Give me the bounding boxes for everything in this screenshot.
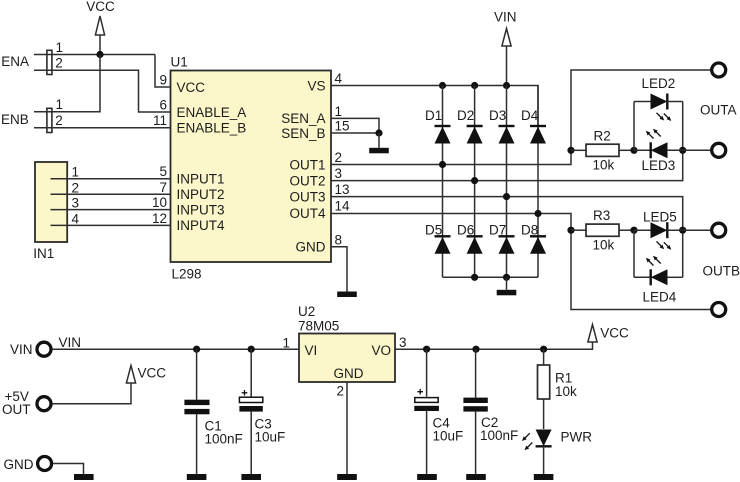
svg-text:OUT3: OUT3: [289, 189, 325, 204]
junction SEN node: [375, 129, 382, 136]
svg-text:GND: GND: [4, 457, 34, 472]
wire LED pair B right vertical: [682, 230, 684, 277]
svg-text:9: 9: [159, 73, 167, 88]
LED PWR: [522, 430, 592, 475]
svg-text:ENABLE_A: ENABLE_A: [177, 105, 247, 120]
svg-text:3: 3: [399, 335, 407, 350]
ground PWR: [534, 474, 554, 480]
svg-text:11: 11: [153, 113, 167, 128]
connector IN1: [33, 162, 79, 261]
diode D5: [425, 165, 451, 278]
ground U2: [337, 474, 357, 480]
wire U2 VO to VCC flag right: [395, 342, 593, 349]
svg-text:OUTB: OUTB: [703, 264, 740, 279]
svg-text:OUTA: OUTA: [700, 103, 737, 118]
svg-text:D3: D3: [489, 108, 506, 123]
wire bridge bottom rail: [443, 276, 539, 278]
IC U2 78M05: [298, 304, 395, 382]
ground C1: [187, 474, 207, 480]
junction VCC at ENA pin1: [96, 51, 103, 58]
wire OUT4 from U1 pin14 down to OUTB bottom: [331, 214, 711, 310]
junction R2 tap: [567, 147, 574, 154]
terminal OUTA top: [712, 63, 726, 77]
svg-text:R3: R3: [593, 208, 610, 223]
junction R3/LED pair left: [630, 227, 637, 234]
junction R1 tap: [540, 346, 547, 353]
svg-text:ENB: ENB: [1, 112, 29, 127]
diode D3: [489, 86, 515, 197]
svg-text:U2: U2: [298, 304, 315, 319]
svg-text:VCC: VCC: [138, 365, 167, 380]
wire IN1-3 to INPUT3: [51, 209, 171, 211]
junction rail D6: [471, 274, 478, 281]
wire GND terminal to ground: [53, 464, 83, 475]
LED LED4: [634, 256, 683, 305]
junction LED5 right node: [679, 227, 686, 234]
svg-text:VCC: VCC: [86, 0, 115, 14]
U1 pin names left side: [177, 80, 247, 233]
svg-text:10uF: 10uF: [433, 428, 464, 443]
svg-text:R2: R2: [594, 129, 611, 144]
wire IN1-4 to INPUT4: [51, 224, 171, 226]
wire LED pair A right vertical: [682, 102, 684, 151]
svg-text:12: 12: [152, 211, 167, 226]
junction rail D1: [439, 82, 446, 89]
wire LED pair A left vertical: [633, 102, 635, 151]
svg-text:10uF: 10uF: [255, 429, 286, 444]
svg-text:10: 10: [152, 195, 167, 210]
connector ENA: [1, 40, 63, 75]
terminal OUTA bottom: [712, 143, 726, 157]
diode D1: [425, 86, 451, 165]
svg-text:INPUT2: INPUT2: [177, 187, 225, 202]
wire OUT2 from U1 pin3 up to LED3 right node: [331, 150, 683, 180]
svg-text:2: 2: [335, 150, 343, 165]
wire OUT3 from U1 pin13 down to LED5 right node: [331, 197, 683, 231]
svg-text:OUT: OUT: [2, 402, 31, 417]
svg-text:1: 1: [56, 40, 64, 55]
svg-text:ENABLE_B: ENABLE_B: [177, 120, 247, 135]
junction rail D7: [503, 274, 510, 281]
ground terminal GND: [74, 474, 94, 480]
wire IN1-1 to INPUT1: [51, 178, 171, 180]
svg-text:7: 7: [159, 180, 167, 195]
svg-text:INPUT1: INPUT1: [177, 172, 225, 187]
resistor R3: [571, 208, 634, 253]
diode D7: [489, 197, 515, 278]
terminal OUTB bottom: [712, 303, 726, 317]
IC U1 L298 body: [171, 54, 332, 281]
svg-text:IN1: IN1: [33, 246, 54, 261]
svg-text:1: 1: [56, 97, 64, 112]
junction D2/OUT2: [471, 177, 478, 184]
ground C3: [241, 474, 261, 480]
wire ENA pin2 to U1 pin6 ENABLE_A: [34, 70, 171, 112]
svg-text:2: 2: [55, 56, 63, 71]
svg-text:100nF: 100nF: [205, 432, 243, 447]
svg-text:OUT1: OUT1: [289, 157, 325, 172]
svg-text:LED3: LED3: [642, 158, 676, 173]
U1 pin numbers right side: [335, 71, 351, 247]
capacitor C4 (electrolytic): [414, 349, 463, 474]
svg-text:VIN: VIN: [59, 335, 82, 350]
diode D6: [457, 181, 483, 278]
svg-text:OUT4: OUT4: [289, 206, 325, 221]
svg-text:INPUT4: INPUT4: [177, 218, 226, 233]
svg-text:VO: VO: [372, 343, 392, 358]
svg-text:D1: D1: [425, 108, 442, 123]
junction C4 tap: [423, 346, 430, 353]
svg-text:ENA: ENA: [1, 54, 29, 69]
svg-text:D8: D8: [521, 223, 538, 238]
wire IN1-2 to INPUT2: [51, 193, 171, 195]
junction rail VIN/D3: [503, 82, 510, 89]
connector ENB: [1, 97, 63, 132]
svg-text:6: 6: [159, 98, 167, 113]
diode D2: [457, 86, 483, 181]
svg-text:PWR: PWR: [561, 430, 593, 445]
capacitor C2: [463, 349, 518, 474]
wire corner down to pin 9: [155, 55, 171, 88]
svg-text:10k: 10k: [555, 384, 577, 399]
power flag VIN top: [494, 10, 517, 86]
svg-text:8: 8: [335, 232, 343, 247]
svg-text:VIN: VIN: [10, 342, 33, 357]
svg-text:U1: U1: [171, 54, 188, 69]
junction D1/OUT1: [439, 161, 446, 168]
junction rail D2: [471, 82, 478, 89]
svg-text:2: 2: [336, 384, 344, 399]
junction D3/OUT3: [503, 193, 510, 200]
LED LED3: [634, 129, 711, 173]
svg-text:78M05: 78M05: [298, 318, 339, 333]
capacitor C1: [184, 349, 242, 474]
ground U1: [337, 292, 357, 298]
svg-text:LED5: LED5: [643, 210, 677, 225]
LED LED2: [634, 76, 683, 121]
svg-text:VCC: VCC: [177, 80, 206, 95]
terminal +5V OUT: [2, 389, 51, 417]
svg-text:L298: L298: [172, 266, 202, 281]
wire SEN_B from U1 pin15: [331, 132, 379, 134]
svg-text:VIN: VIN: [494, 10, 517, 25]
junction C1 tap: [193, 346, 200, 353]
svg-text:INPUT3: INPUT3: [177, 202, 225, 217]
resistor R1: [538, 349, 578, 429]
wire SEN_A from U1 pin1: [331, 118, 379, 133]
ground SEN: [369, 148, 389, 154]
svg-text:LED4: LED4: [643, 290, 677, 305]
wire U2 GND to ground: [346, 382, 348, 474]
power flag VCC right: [588, 325, 629, 343]
svg-text:10k: 10k: [593, 158, 615, 173]
ground C4: [417, 474, 437, 480]
svg-text:VCC: VCC: [600, 325, 629, 340]
U2 pin numbers: [282, 335, 406, 399]
svg-text:D2: D2: [457, 108, 474, 123]
ground bridge: [497, 290, 517, 296]
wire +5V OUT to VCC flag: [53, 383, 132, 404]
svg-text:D4: D4: [521, 108, 539, 123]
svg-text:D7: D7: [489, 223, 506, 238]
svg-text:3: 3: [72, 196, 80, 211]
svg-text:13: 13: [335, 182, 350, 197]
wire LED pair B left vertical: [633, 230, 635, 277]
junction LED3 right node: [679, 147, 686, 154]
svg-text:4: 4: [335, 71, 343, 86]
junction D4/OUT4: [534, 210, 541, 217]
U1 pin numbers left side: [152, 73, 167, 226]
svg-text:1: 1: [335, 104, 343, 119]
svg-text:OUT2: OUT2: [289, 173, 325, 188]
power flag VCC top-left: [86, 0, 115, 55]
svg-text:1: 1: [72, 165, 80, 180]
svg-text:100nF: 100nF: [480, 428, 518, 443]
ground C2: [466, 474, 486, 480]
power flag VCC mid: [126, 365, 166, 383]
svg-text:2: 2: [72, 180, 80, 195]
svg-text:10k: 10k: [593, 238, 615, 253]
svg-text:GND: GND: [296, 240, 326, 255]
junction C2 tap: [472, 346, 479, 353]
resistor R2: [571, 129, 634, 173]
svg-text:4: 4: [72, 211, 80, 226]
diode D4: [521, 86, 546, 214]
svg-text:D6: D6: [457, 223, 474, 238]
wire GND pin8 of U1 to ground: [331, 247, 347, 292]
wire VS rail from U1 pin4 to D4 column: [331, 86, 538, 127]
svg-text:1: 1: [282, 336, 290, 351]
svg-text:VI: VI: [305, 343, 318, 358]
U1 pin names right side: [281, 78, 326, 254]
svg-text:SEN_A: SEN_A: [281, 111, 325, 126]
svg-text:D5: D5: [425, 223, 442, 238]
svg-text:5: 5: [159, 164, 167, 179]
svg-text:3: 3: [335, 166, 343, 181]
capacitor C3 (electrolytic): [239, 349, 285, 474]
junction R3 tap: [567, 227, 574, 234]
svg-text:LED2: LED2: [642, 76, 676, 91]
terminal VIN: [10, 342, 51, 357]
wire SEN node to ground: [378, 133, 380, 148]
svg-text:14: 14: [335, 199, 351, 214]
junction C3 tap: [248, 346, 255, 353]
svg-text:SEN_B: SEN_B: [281, 126, 325, 141]
wire ENA pin1 to U1 pin9 (VCC net): [34, 54, 155, 56]
wire rail to ground: [506, 277, 508, 290]
svg-text:15: 15: [335, 119, 350, 134]
svg-text:VS: VS: [307, 78, 325, 93]
terminal GND: [4, 457, 52, 472]
wire VIN to U2 VI: [53, 348, 300, 350]
junction R2/LED pair left: [630, 147, 637, 154]
svg-text:2: 2: [55, 113, 63, 128]
svg-text:GND: GND: [334, 366, 364, 381]
wire ENB pin2 to U1 pin11 ENABLE_B: [34, 127, 171, 129]
LED LED5: [634, 210, 711, 250]
wire ENB pin1 up to VCC junction: [34, 55, 100, 112]
terminal OUTB top: [712, 223, 726, 237]
wire OUT1 from U1 pin2 up to OUTA top: [331, 70, 711, 165]
diode D8: [521, 214, 546, 278]
